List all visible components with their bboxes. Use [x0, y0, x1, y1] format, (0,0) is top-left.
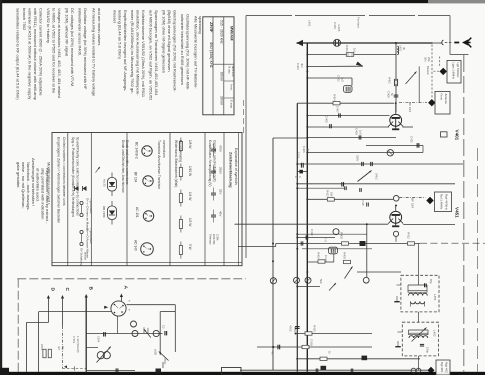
svg-text:voltmeter betrachtet zu R406 g: voltmeter betrachtet zu R406 gemessen: [180, 14, 185, 85]
svg-text:(By548) ohne mf-Signal gemesse: (By548) ohne mf-Signal gemessen: [167, 10, 172, 72]
table: legend (Zeichenerklaerung): [52, 133, 242, 266]
svg-text:C504: C504: [97, 336, 101, 343]
svg-text:Oszillatorspannung (Tol. 30%): Oszillatorspannung (Tol. 30%) mit HF-Mil…: [186, 14, 191, 90]
wire row 234.2 + osc circle: [297, 233, 367, 235]
wire row 199.3 + resistor: [307, 198, 393, 200]
svg-text:4-225: 4-225: [337, 24, 341, 32]
svg-text:25V: 25V: [219, 189, 223, 194]
wire row 103: [297, 102, 394, 104]
legend pot mini symbol: [96, 167, 101, 173]
svg-text:C405: C405: [325, 116, 329, 123]
legend transistor AD 149: [141, 243, 154, 256]
legend capacitor symbol: [211, 214, 216, 216]
svg-text:V401: V401: [455, 130, 460, 141]
wire row 66.5 tuning pointer: [307, 65, 363, 67]
svg-text:10% 5%: 10% 5%: [212, 234, 216, 245]
svg-text:R422: R422: [326, 190, 330, 197]
svg-text:C407: C407: [336, 106, 340, 113]
svg-text:R409: R409: [343, 252, 347, 259]
svg-text:L452: L452: [433, 330, 437, 337]
measurement point circles: [411, 368, 416, 373]
diamond: alignment mark mid: [426, 197, 433, 204]
svg-text:D: D: [50, 288, 56, 292]
svg-text:weise - nur mit Quellenan-: weise - nur mit Quellenan-: [21, 162, 26, 209]
volume control cluster: [131, 321, 137, 327]
svg-text:Transistor Anschluesse Transi: Transistor Anschluesse Transistor: [157, 140, 161, 190]
svg-text:4k7: 4k7: [57, 346, 61, 351]
primary winding L452: [409, 336, 414, 338]
capacitor C409 on chain: [394, 94, 399, 96]
svg-text:X 501: X 501: [72, 336, 76, 344]
wire row 54.5 + resistor R401: [307, 54, 396, 56]
svg-text:tip and Polarity conn. switch: tip and Polarity conn. switch (contacts …: [76, 137, 80, 216]
svg-text:C408: C408: [355, 128, 359, 135]
bus: third vertical rail x273: [272, 138, 274, 370]
svg-text:C412: C412: [310, 229, 314, 236]
svg-text:C2: C2: [162, 325, 166, 329]
secondary winding: [411, 302, 416, 304]
svg-text:L402: L402: [399, 45, 403, 52]
svg-text:V451: V451: [455, 207, 460, 218]
svg-text:R504: R504: [40, 344, 44, 351]
legend resistor symbol: [179, 142, 182, 151]
wire row 262 + resistor R406: [308, 261, 334, 263]
pot R409: [344, 260, 351, 263]
svg-text:100k: 100k: [146, 328, 150, 334]
svg-text:180: 180: [330, 192, 334, 197]
gang tuning capacitor C401: [334, 39, 341, 46]
svg-text:L451: L451: [433, 294, 437, 301]
test circle + dash-dot to diamond: [393, 196, 399, 202]
wire row 360.5: [296, 358, 420, 360]
svg-text:gabe gestattet.: gabe gestattet.: [16, 162, 21, 188]
svg-text:Eingetragene Zahlen = Verbindu: Eingetragene Zahlen = Verbindungen zwisc…: [57, 137, 61, 223]
svg-text:Rgb 462: Rgb 462: [445, 362, 449, 373]
svg-text:Collector current 8500 (2 - 25: Collector current 8500 (2 - 25mA 20%) ad…: [39, 8, 44, 96]
legend diode OB 7480: [108, 206, 117, 220]
wire row 272 to IF can: [357, 271, 401, 273]
wire row 145.4 + capacitor C410: [366, 144, 423, 146]
svg-text:80p: 80p: [429, 279, 433, 284]
primary winding L451: [409, 293, 414, 295]
svg-text:A: A: [123, 286, 129, 290]
svg-text:2.5%: 2.5%: [216, 234, 220, 241]
resistor R402 on chain: [394, 79, 397, 86]
svg-text:Empfindlichkeiten bezogen auf: Empfindlichkeiten bezogen auf NF-Ausgang…: [123, 10, 128, 92]
svg-text:Antenne: Antenne: [444, 94, 448, 105]
svg-text:7.5: 7.5: [324, 238, 328, 242]
svg-text:Au 22: Au 22: [103, 179, 107, 187]
frame: main schematic border top: [246, 15, 450, 17]
svg-text:R401: R401: [345, 45, 349, 52]
svg-text:1k0: 1k0: [353, 48, 357, 53]
dashed page mark above legend: [243, 100, 245, 133]
svg-text:Alle Messwerte bezogen auf TV-: Alle Messwerte bezogen auf TV-Batterie-: [194, 16, 199, 89]
svg-text:Kondensator, Nennspannung (V): Kondensator, Nennspannung (V): [208, 140, 212, 186]
svg-text:20p: 20p: [427, 57, 431, 62]
wire row 171.5 choke link: [297, 171, 307, 173]
frame: main schematic border left: [245, 16, 247, 259]
svg-text:Nachdruck - auch auszugs-: Nachdruck - auch auszugs-: [26, 162, 31, 211]
svg-text:S402: S402: [375, 173, 379, 180]
svg-text:5n: 5n: [390, 93, 394, 97]
svg-text:All measuring values related t: All measuring values related to TV batte…: [92, 8, 97, 97]
svg-text:Rgb 467kHz: Rgb 467kHz: [445, 194, 449, 210]
legend capacitor symbol: [211, 192, 216, 194]
antenna coupling connector: [442, 40, 444, 45]
wire row 311.6: [39, 311, 112, 313]
svg-text:= grounded: = grounded: [89, 228, 93, 244]
wire row 347.6: [257, 346, 372, 348]
wire row 127 + capacitor: [307, 126, 389, 128]
svg-text:(Ri 10M) ohne mf-Signal gemess: (Ri 10M) ohne mf-Signal gemessen: [162, 10, 167, 73]
svg-text:auf M606 bezogen, an V502 auf: auf M606 bezogen, an V502 auf Rgeh. an V…: [149, 10, 154, 101]
svg-text:voltmeter (R A510 at 500mA) in: voltmeter (R A510 at 500mA) in the negat…: [28, 8, 33, 99]
svg-text:250V: 250V: [356, 155, 360, 161]
svg-text:AC 151: AC 151: [135, 207, 139, 218]
svg-text:L401: L401: [308, 20, 312, 27]
svg-text:R415: R415: [313, 325, 317, 332]
symbol: connection grounded outer: [80, 230, 83, 233]
svg-text:to M606, at V502 to P505 and f: to M606, at V502 to P505 and for receive…: [52, 8, 57, 94]
svg-text:30mV: 30mV: [220, 96, 224, 106]
label box: Lges/Lgb: [447, 61, 461, 84]
svg-text:meter (Ri A510/50mA) im Minusz: meter (Ri A510/50mA) im Minuszweig 7502 …: [130, 10, 135, 94]
svg-text:1/10 W: 1/10 W: [188, 166, 192, 176]
label box: alignment frequencies: [435, 192, 452, 212]
svg-text:4702: 4702: [289, 325, 293, 332]
svg-text:= grounded: = grounded: [89, 198, 93, 214]
svg-text:Oscillator voltage (tol 30%) m: Oscillator voltage (tol 30%) measured wi…: [83, 8, 88, 90]
svg-text:Gleichspannungen (Tol 20%) mit: Gleichspannungen (Tol 20%) mit Roehrenvo…: [173, 10, 178, 92]
svg-text:Bereich: Bereich: [426, 66, 430, 75]
antenna: [454, 42, 459, 44]
svg-text:R406: R406: [317, 252, 321, 259]
svg-text:30: 30: [402, 47, 406, 51]
wire row 371.3 bottom cut: [240, 369, 430, 371]
svg-text:Lges 1.6MHz: Lges 1.6MHz: [452, 63, 456, 80]
wire row 248.8 + electrolytic: [302, 248, 372, 250]
svg-text:V551/52 to +battery: V551/52 to +battery: [46, 8, 51, 43]
scan edge bar top: [0, 0, 485, 3]
diamond: alignment bottom + label box: [428, 367, 435, 374]
svg-text:spannung: spannung: [198, 16, 203, 34]
svg-text:Widerstand, Belastbarkeit (Wa: Widerstand, Belastbarkeit (Watt): [174, 140, 178, 187]
dropper chain x396: coil L402: [395, 43, 397, 112]
IF transformer can 1: [401, 275, 439, 312]
svg-text:BF 194: BF 194: [408, 102, 412, 112]
svg-text:470V: 470V: [219, 145, 223, 152]
svg-text:460 (455) kHz: 460 (455) kHz: [209, 42, 214, 68]
svg-text:C402: C402: [337, 75, 341, 82]
svg-text:R402: R402: [388, 77, 392, 84]
svg-text:Capacitor, rated voltage (volt: Capacitor, rated voltage (volt): [213, 140, 217, 182]
svg-text:of authorities used.: of authorities used.: [36, 168, 41, 202]
svg-text:E max.: E max.: [230, 100, 234, 109]
svg-text:60mV: 60mV: [220, 72, 224, 82]
svg-text:R404: R404: [333, 94, 337, 101]
legend resistor symbol: [179, 194, 182, 203]
svg-text:log: log: [61, 346, 65, 350]
wire row 137.5: [273, 137, 307, 139]
svg-text:an B-10A: an B-10A: [231, 66, 234, 77]
frame: right page-cut dashed borders: [463, 55, 465, 372]
svg-text:Diode und Gleichrichter, Ansch: Diode und Gleichrichter, Anschluesse: [121, 140, 125, 193]
scan edge bar bottom: [0, 372, 485, 375]
svg-text:6V Schaltung: 6V Schaltung: [80, 248, 84, 266]
transistor V401: [390, 114, 402, 126]
svg-text:Spg. u. Polaritaetsschalter (K: Spg. u. Polaritaetsschalter (Kontakte a+…: [71, 137, 75, 217]
legend diode Au 22: [108, 178, 117, 192]
svg-text:4k7: 4k7: [271, 351, 275, 356]
legend transistor BF 194: [143, 176, 153, 186]
svg-text:Spannungen an Transistoren V45: Spannungen an Transistoren V451,452,453,…: [154, 10, 159, 96]
svg-text:1/2 W: 1/2 W: [188, 218, 192, 226]
trimmer arrow on chain: [406, 72, 417, 85]
svg-text:1n0: 1n0: [359, 130, 363, 135]
legend resistor symbol: [179, 168, 182, 177]
can2 left pin + ground: [398, 331, 403, 333]
svg-text:U osc: U osc: [227, 66, 231, 74]
label box: Ferrit antenne: [435, 92, 450, 115]
svg-text:ship permitted with indication: ship permitted with indication: [40, 168, 45, 219]
svg-text:C410: C410: [410, 136, 414, 143]
wire row 286.5: [297, 286, 320, 288]
wire: tuned RF input rail y43: [297, 42, 433, 44]
svg-text:B: B: [88, 287, 94, 291]
svg-text:R412: R412: [407, 232, 411, 239]
svg-text:DC voltages (tol 20%) measured: DC voltages (tol 20%) measured with VTVM: [70, 8, 75, 86]
trimmer circles on rails: [270, 278, 276, 284]
svg-text:millivoltmeter across R406.: millivoltmeter across R406.: [78, 8, 83, 56]
svg-text:Rgt 468: Rgt 468: [440, 362, 444, 372]
svg-text:5 W: 5 W: [188, 244, 192, 250]
junction dots on rails: [296, 163, 298, 165]
svg-text:x508: x508: [154, 349, 158, 355]
svg-text:1/8 W: 1/8 W: [188, 140, 192, 148]
svg-text:connections: connections: [162, 140, 166, 158]
wire row 237.5 + capacitor: [297, 237, 335, 239]
dash-dot link C to B: [63, 368, 87, 370]
svg-text:180: 180: [293, 327, 297, 332]
wire bottom segment: [87, 370, 135, 372]
legend resistor symbol: [179, 220, 182, 229]
svg-text:Modifications reserved !: Modifications reserved !: [47, 162, 52, 204]
svg-text:BC 148 B-C: BC 148 B-C: [135, 142, 139, 160]
svg-text:f min.: f min.: [230, 84, 234, 91]
svg-text:5k6: 5k6: [319, 279, 323, 284]
svg-text:Sensitivities related to RF ou: Sensitivities related to RF output (EL44…: [16, 8, 21, 100]
svg-text:Voltages at transistors V451,: Voltages at transistors V451, 452, 453, …: [57, 8, 62, 98]
svg-text:C: C: [294, 176, 298, 178]
svg-text:C406: C406: [302, 146, 306, 153]
svg-text:ZF/IF: ZF/IF: [209, 22, 214, 33]
resistor + pot cluster left: [43, 349, 46, 358]
svg-text:Aenderungen vorbehalten !: Aenderungen vorbehalten !: [31, 158, 36, 206]
svg-text:Ferritant.: Ferritant.: [357, 17, 361, 29]
pot slash FM: [358, 171, 372, 182]
svg-text:Diode and rectifier, connectio: Diode and rectifier, connections: [125, 140, 129, 185]
svg-text:2u5: 2u5: [341, 77, 345, 82]
wire row 333.5: [296, 333, 373, 335]
wire row 322.5 D-branch: [26, 322, 48, 324]
vertical link x419: [418, 66, 420, 102]
legend diode symbols: [75, 186, 79, 191]
svg-text:branch 7502: branch 7502: [22, 8, 27, 31]
can1 left pin + ground: [397, 284, 402, 286]
svg-text:C403: C403: [296, 63, 300, 70]
wire row 188.2: [297, 187, 345, 189]
svg-text:Kollektorstroeme V551/52 (25mA: Kollektorstroeme V551/52 (25mA 20%), mit…: [141, 10, 146, 98]
diamond: alignment second: [428, 99, 435, 106]
svg-text:Rpt 1.4MHz: Rpt 1.4MHz: [440, 194, 444, 210]
svg-text:OB 7480: OB 7480: [102, 206, 106, 218]
wire row 152.5 + test point: [307, 152, 423, 154]
wire row 115.5 + capacitor: [307, 115, 389, 117]
wire row 224.2 AGC line: [235, 223, 389, 225]
svg-text:40n: 40n: [300, 63, 304, 68]
wire row 183.8: [297, 183, 455, 185]
dash-dot link to alignment diamond: [399, 102, 427, 104]
wire row 164 discriminator: [297, 163, 463, 165]
test point below V451: [393, 231, 398, 236]
legend transistor BC 148 B-C: [142, 146, 152, 156]
svg-text:1/4 W: 1/4 W: [188, 192, 192, 200]
svg-text:Explanation of symbols: Explanation of symbols: [234, 148, 238, 185]
svg-text:R502: R502: [142, 328, 146, 335]
svg-text:515 - 1620 kHz: 515 - 1620 kHz: [220, 20, 224, 44]
wire row 347.6 left: [86, 347, 98, 349]
svg-text:Ferrit: Ferrit: [440, 94, 444, 101]
svg-text:250V: 250V: [163, 358, 167, 364]
svg-text:Lgb 510kHz: Lgb 510kHz: [456, 63, 460, 79]
svg-text:Toleranz: Toleranz: [209, 234, 213, 245]
svg-text:AD 149: AD 149: [134, 240, 138, 251]
svg-text:1.3V (50mW): 1.3V (50mW): [76, 336, 80, 353]
wire row 304.7: [127, 304, 176, 306]
frame: sub schematic dashed border: [17, 278, 246, 280]
svg-text:circuit: circuit: [84, 252, 88, 260]
vertical link x366.8: [366, 224, 368, 277]
svg-text:messer: messer: [113, 10, 118, 24]
svg-text:40V: 40V: [219, 211, 223, 216]
bus: second vertical rail x297: [296, 103, 298, 372]
svg-text:190p: 190p: [426, 347, 430, 353]
transistor V501 pinout style: [111, 301, 126, 316]
scan edge bar left: [0, 0, 2, 375]
empty connector box: [222, 368, 242, 375]
svg-text:BF 194: BF 194: [134, 172, 138, 183]
frame: top right notch: [449, 16, 451, 55]
svg-text:C: C: [64, 288, 70, 292]
legend resistor symbol: [179, 246, 182, 255]
table: tuning ranges / oscillator voltage: [203, 17, 234, 115]
svg-text:C401: C401: [333, 22, 337, 29]
wire row 243.5 main supply: [276, 243, 420, 245]
legend capacitor symbol: [211, 148, 216, 150]
svg-text:C409: C409: [387, 91, 391, 98]
svg-text:MW/AM: MW/AM: [230, 26, 235, 41]
svg-text:O--+--O Innen an Masse: O--+--O Innen an Masse: [86, 198, 90, 231]
diamond: alignment top: [440, 68, 447, 75]
svg-text:leistung (EL44 an 5.8 Ohm): leistung (EL44 an 5.8 Ohm): [118, 10, 123, 60]
svg-text:einstellbar), ohne Aussteuerun: einstellbar), ohne Aussteuerung mit Mill…: [136, 10, 141, 96]
svg-text:30n: 30n: [424, 57, 428, 62]
wire row 78 L-drop + electrolytic C402: [307, 77, 352, 79]
svg-text:C415: C415: [361, 199, 365, 206]
svg-text:(Ri 10M), without RF signal: (Ri 10M), without RF signal: [65, 8, 70, 56]
svg-text:Circled numbers = connections: Circled numbers = connections between un…: [62, 137, 66, 206]
symbol: connection grounded inner: [80, 201, 83, 204]
svg-text:R408: R408: [340, 232, 344, 239]
IF transformer can 2: [402, 322, 438, 356]
svg-text:Zeichenerklaerung: Zeichenerklaerung: [229, 152, 234, 188]
svg-text:250V: 250V: [219, 167, 223, 174]
svg-text:C418: C418: [310, 339, 314, 346]
svg-text:and are mean values: and are mean values: [97, 8, 102, 45]
legend transistor AC 151: [143, 211, 153, 221]
svg-text:C411: C411: [297, 152, 301, 159]
svg-text:with R511), measured without v: with R511), measured without volume with…: [33, 8, 38, 101]
transistor V451: [390, 211, 402, 223]
bus: main vertical rail x307: [306, 43, 308, 372]
small box component right: [441, 132, 448, 137]
legend capacitor symbol: [211, 170, 216, 172]
svg-text:BF 194: BF 194: [411, 198, 415, 208]
switch S508: [159, 352, 169, 361]
dashed link down right side: [431, 45, 433, 99]
